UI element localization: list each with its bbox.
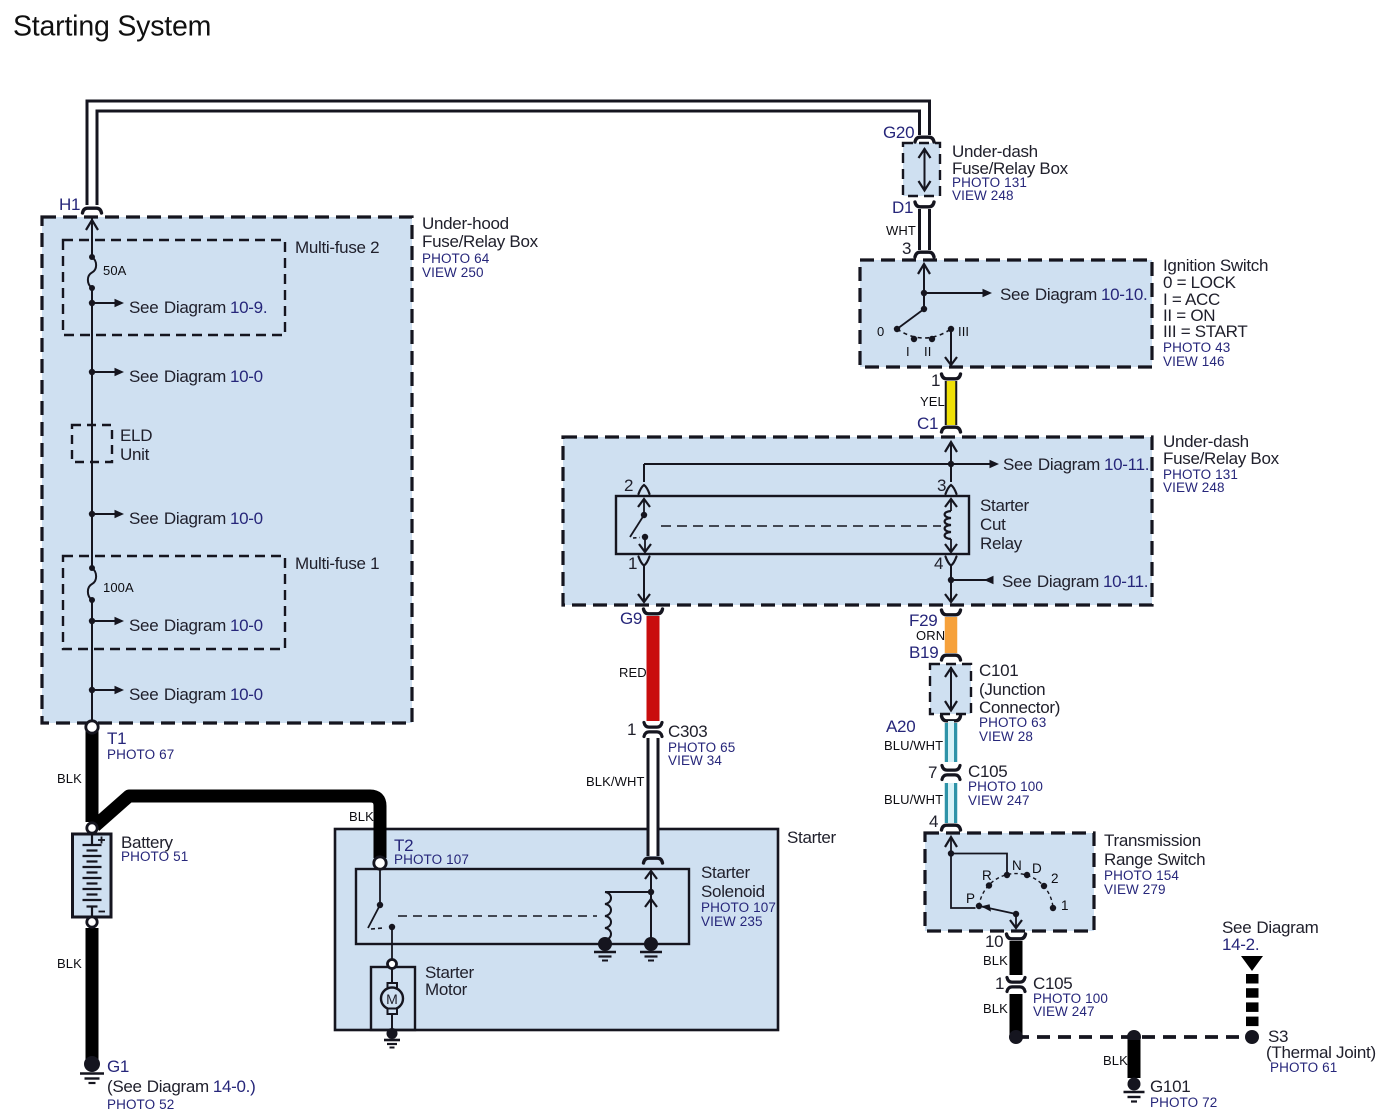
svg-text:Solenoid: Solenoid [701,882,765,901]
svg-text:B19: B19 [909,643,938,662]
svg-text:Motor: Motor [425,980,468,999]
svg-text:PHOTO 43: PHOTO 43 [1163,340,1230,355]
svg-text:T1: T1 [107,729,126,748]
svg-text:SeeDiagram10-9.: SeeDiagram10-9. [129,298,267,317]
svg-text:P: P [966,891,975,906]
svg-text:1: 1 [628,554,637,573]
svg-text:(Junction: (Junction [979,680,1045,699]
svg-text:Unit: Unit [120,445,150,464]
svg-text:Multi-fuse 2: Multi-fuse 2 [295,238,379,257]
svg-text:VIEW 235: VIEW 235 [701,914,763,929]
svg-text:PHOTO 154: PHOTO 154 [1104,868,1179,883]
svg-text:D1: D1 [892,198,913,217]
svg-text:Transmission: Transmission [1104,831,1201,850]
svg-text:4: 4 [934,554,943,573]
svg-text:3: 3 [902,239,911,258]
svg-text:BLK: BLK [983,953,1008,968]
svg-text:BLU/WHT: BLU/WHT [884,738,943,753]
svg-text:N: N [1012,858,1022,873]
svg-text:SeeDiagram10-0: SeeDiagram10-0 [129,509,263,528]
svg-text:10: 10 [985,932,1003,951]
svg-text:G1: G1 [107,1057,129,1076]
svg-text:RED: RED [619,665,647,680]
svg-text:Starting System: Starting System [13,11,211,43]
svg-text:2: 2 [624,476,633,495]
svg-text:50A: 50A [103,263,127,278]
svg-text:YEL: YEL [920,394,945,409]
svg-text:C101: C101 [979,661,1018,680]
svg-text:PHOTO 67: PHOTO 67 [107,747,174,762]
svg-text:VIEW 250: VIEW 250 [422,265,484,280]
svg-text:H1: H1 [59,195,80,214]
svg-text:PHOTO 52: PHOTO 52 [107,1097,174,1112]
svg-text:SeeDiagram10-0: SeeDiagram10-0 [129,685,263,704]
svg-text:2: 2 [1051,871,1059,886]
svg-text:1: 1 [995,974,1004,993]
svg-text:C303: C303 [668,722,707,741]
svg-text:BLK: BLK [1103,1053,1128,1068]
svg-text:3: 3 [937,476,946,495]
svg-text:PHOTO 107: PHOTO 107 [394,852,469,867]
svg-text:G101: G101 [1150,1077,1190,1096]
svg-text:(SeeDiagram14-0.): (SeeDiagram14-0.) [107,1077,255,1096]
svg-text:M: M [386,991,398,1007]
svg-text:G9: G9 [620,609,642,628]
svg-text:PHOTO 61: PHOTO 61 [1270,1060,1337,1075]
svg-text:VIEW 247: VIEW 247 [968,793,1030,808]
svg-text:4: 4 [929,812,938,831]
svg-text:PHOTO 51: PHOTO 51 [121,849,188,864]
svg-text:0: 0 [877,324,884,339]
svg-text:VIEW 34: VIEW 34 [668,753,722,768]
svg-text:BLK: BLK [57,956,82,971]
svg-text:Relay: Relay [980,534,1023,553]
svg-text:VIEW 28: VIEW 28 [979,729,1033,744]
svg-text:Range Switch: Range Switch [1104,850,1205,869]
svg-text:SeeDiagram10-10.: SeeDiagram10-10. [1000,285,1147,304]
svg-text:Multi-fuse 1: Multi-fuse 1 [295,554,379,573]
svg-text:G20: G20 [883,123,914,142]
svg-text:II: II [924,344,931,359]
svg-text:1: 1 [1061,898,1069,913]
svg-text:Starter: Starter [701,863,751,882]
svg-text:7: 7 [928,763,937,782]
svg-text:VIEW 146: VIEW 146 [1163,354,1225,369]
svg-text:III = START: III = START [1163,322,1247,341]
svg-text:PHOTO 64: PHOTO 64 [422,251,490,266]
svg-text:VIEW 279: VIEW 279 [1104,882,1166,897]
svg-text:BLK: BLK [983,1001,1008,1016]
svg-text:Starter: Starter [980,496,1030,515]
svg-text:BLU/WHT: BLU/WHT [884,792,943,807]
svg-text:1: 1 [931,371,940,390]
svg-text:VIEW 248: VIEW 248 [952,188,1014,203]
svg-text:Fuse/Relay Box: Fuse/Relay Box [1163,449,1280,468]
svg-text:1: 1 [627,720,636,739]
svg-text:SeeDiagram10-11.: SeeDiagram10-11. [1003,455,1149,474]
svg-text:BLK: BLK [57,771,82,786]
svg-text:C1: C1 [917,414,938,433]
svg-text:PHOTO 100: PHOTO 100 [968,779,1043,794]
svg-text:VIEW 248: VIEW 248 [1163,480,1225,495]
svg-text:Under-hood: Under-hood [422,214,509,233]
svg-text:III: III [958,324,969,339]
svg-text:Starter: Starter [787,828,837,847]
svg-text:A20: A20 [886,717,915,736]
svg-text:Fuse/Relay Box: Fuse/Relay Box [422,232,539,251]
svg-text:WHT: WHT [886,223,916,238]
svg-text:SeeDiagram10-0: SeeDiagram10-0 [129,616,263,635]
svg-text:ORN: ORN [916,628,945,643]
svg-text:D: D [1032,861,1042,876]
svg-text:BLK/WHT: BLK/WHT [586,774,644,789]
svg-text:Cut: Cut [980,515,1006,534]
svg-text:I: I [906,344,910,359]
svg-text:14-2.: 14-2. [1222,935,1259,954]
svg-text:SeeDiagram10-0: SeeDiagram10-0 [129,367,263,386]
svg-text:ELD: ELD [120,426,152,445]
svg-text:R: R [982,868,992,883]
svg-text:SeeDiagram10-11.: SeeDiagram10-11. [1002,572,1148,591]
svg-text:PHOTO 63: PHOTO 63 [979,715,1046,730]
svg-text:100A: 100A [103,580,134,595]
svg-text:BLK: BLK [349,809,374,824]
svg-text:PHOTO 72: PHOTO 72 [1150,1095,1217,1110]
svg-text:VIEW 247: VIEW 247 [1033,1004,1095,1019]
svg-text:PHOTO 107: PHOTO 107 [701,900,776,915]
